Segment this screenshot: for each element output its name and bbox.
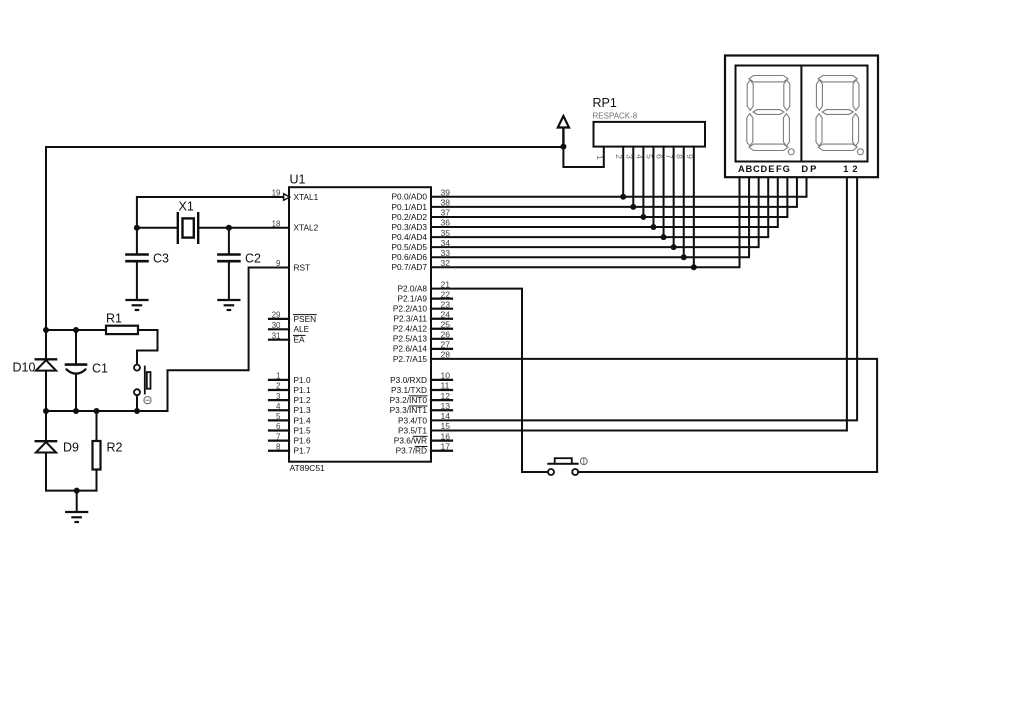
svg-text:RP1: RP1 [593,96,617,110]
svg-text:F: F [776,164,782,174]
svg-text:3: 3 [624,154,634,159]
ground bottom-left [66,511,87,513]
svg-text:P2.6/A14: P2.6/A14 [393,344,428,354]
wire RP1 pin 8 to P0.6 bus [683,147,685,258]
svg-text:2: 2 [852,164,857,174]
wire C2 to ground [228,262,230,299]
svg-text:33: 33 [441,248,451,258]
display digit 1 seven-segment outline [749,76,788,82]
push button actuator mark [580,458,587,465]
svg-text:6: 6 [276,422,281,431]
capacitor C3 [127,253,148,256]
svg-text:P1.2: P1.2 [294,395,311,405]
wire P3.5/T1 from U1 pin 15 to display digit-1 pin [431,177,847,430]
svg-text:P3.3/INT1: P3.3/INT1 [390,405,428,415]
svg-text:6: 6 [655,154,665,159]
wire X1 right node down to C2 [228,228,230,254]
U1 pin 27 P2.6/A14 stub [431,348,452,350]
svg-text:28: 28 [441,350,451,360]
svg-text:19: 19 [272,189,281,198]
svg-text:U1: U1 [290,173,306,187]
wire P0.0 bus from U1 pin 39 to display [431,177,807,197]
svg-text:1: 1 [276,372,281,381]
svg-text:P2.3/A11: P2.3/A11 [393,314,427,324]
U1 pin 30 ALE stub [269,328,289,330]
svg-text:P3.5/T1: P3.5/T1 [398,425,427,435]
svg-text:26: 26 [441,330,451,340]
svg-text:14: 14 [441,411,451,421]
display digit 1 decimal point [788,149,794,155]
wire P0.2 bus from U1 pin 37 to display [431,177,787,217]
capacitor C1 polarized [75,330,77,364]
svg-text:D9: D9 [63,441,79,455]
wire to ground symbol [76,491,78,511]
svg-text:XTAL2: XTAL2 [294,223,319,233]
svg-text:31: 31 [272,331,281,340]
svg-text:23: 23 [441,299,451,309]
svg-text:RST: RST [294,262,311,272]
ground below C3 [127,299,148,301]
resistor pack RP1 body [594,122,706,147]
junction bottom ground node [74,488,80,494]
svg-text:8: 8 [276,442,281,451]
svg-text:ALE: ALE [294,324,310,334]
display digit 2 seven-segment outline [818,76,857,82]
push button lower terminals [548,469,554,475]
svg-text:34: 34 [441,238,451,248]
U1 pin 13 P3.3/INT1 stub [431,409,452,411]
junction RP1 pin 6 on P0.4 bus [661,234,667,240]
wire reset row [46,410,168,412]
svg-text:P1.6: P1.6 [294,436,311,446]
junction RP1 pin 5 on P0.3 bus [650,224,656,230]
junction left rail at reset row [43,408,49,414]
svg-text:21: 21 [441,279,451,289]
junction RP1 pin 9 on P0.7 bus [691,264,697,270]
svg-text:P1.5: P1.5 [294,425,311,435]
svg-text:R2: R2 [107,441,123,455]
svg-text:30: 30 [272,321,281,330]
svg-text:9: 9 [685,154,695,159]
U1 pin 25 P2.4/A12 stub [431,328,452,330]
junction X1 right node [226,225,232,231]
svg-text:5: 5 [644,154,654,159]
op-amp U1 AT89C51 microcontroller body [289,187,431,462]
resistor R2 [96,411,98,441]
svg-text:38: 38 [441,198,451,208]
junction RP1 pin 3 on P0.1 bus [630,204,636,210]
svg-text:AT89C51: AT89C51 [290,463,326,473]
svg-text:7: 7 [665,154,675,159]
capacitor C2 [218,253,239,256]
U1 pin 24 P2.3/A11 stub [431,318,452,320]
svg-text:P2.1/A9: P2.1/A9 [397,294,427,304]
svg-text:P2.2/A10: P2.2/A10 [393,304,428,314]
svg-text:A: A [738,164,745,174]
diode D10 [36,358,56,360]
svg-text:36: 36 [441,218,451,228]
U1 pin 2 P1.1 stub [269,389,289,391]
svg-text:17: 17 [441,441,451,451]
U1 pin 31 EA stub [269,339,289,341]
svg-text:P0.2/AD2: P0.2/AD2 [391,212,427,222]
wire P3.4/T0 from U1 pin 14 to display digit-2 pin [431,177,857,420]
wire RP1 pin 9 to P0.7 bus [693,147,695,268]
svg-text:P3.7/RD: P3.7/RD [396,446,427,456]
wire RP1 pin 2 to P0.0 bus [622,147,624,197]
svg-text:P3.1/TXD: P3.1/TXD [391,385,427,395]
svg-text:R1: R1 [106,311,122,325]
wire RP1 pin 1 to power node [563,147,603,167]
svg-text:25: 25 [441,319,451,329]
svg-text:C: C [753,164,760,174]
U1 pin 23 P2.2/A10 stub [431,308,452,310]
svg-text:EA: EA [294,335,306,345]
svg-text:C3: C3 [153,252,169,266]
svg-text:P0.3/AD3: P0.3/AD3 [391,222,427,232]
ground below C2 [218,299,239,301]
svg-text:37: 37 [441,208,451,218]
wire reset row to RST pin of U1 [168,268,290,412]
svg-text:P2.5/A13: P2.5/A13 [393,334,428,344]
svg-text:P0.1/AD1: P0.1/AD1 [391,202,427,212]
U1 pin 29 PSEN stub [269,318,289,320]
wire P2.0/A8 from U1 pin 21 to push button left [431,289,522,472]
U1 pin 3 P1.2 stub [269,399,289,401]
wire bottom node to R2 [46,490,97,492]
U1 pin 22 P2.1/A9 stub [431,298,452,300]
wire D10 to lower rail [45,371,47,441]
svg-text:4: 4 [634,154,644,159]
U1 pin 10 P3.0/RXD stub [431,379,452,381]
svg-text:13: 13 [441,401,451,411]
U1 pin 6 P1.5 stub [269,429,289,431]
svg-text:P: P [810,164,816,174]
wire button right terminal to P2.7 leg [578,471,877,473]
svg-text:8: 8 [675,154,685,159]
svg-text:P1.0: P1.0 [294,375,311,385]
svg-text:B: B [745,164,752,174]
wire R1 row from left rail to R1 [46,329,106,331]
wire left rail vertical [45,147,47,359]
7-segment display body outer box [725,56,878,178]
U1 pin 19 XTAL1 arrow [284,194,290,200]
wire reset button to reset row [136,395,138,411]
reset button actuator mark [144,397,151,404]
svg-text:5: 5 [276,412,281,421]
svg-text:P2.4/A12: P2.4/A12 [393,324,428,334]
svg-text:P0.0/AD0: P0.0/AD0 [391,192,427,202]
svg-text:2: 2 [276,382,281,391]
push button contact bar [548,463,577,465]
U1 pin 4 P1.3 stub [269,409,289,411]
junction X1 left node [134,225,140,231]
wire RP1 pin 5 to P0.3 bus [652,147,654,227]
push button cap [555,458,572,464]
svg-text:P1.4: P1.4 [294,415,311,425]
wire RP1 pin 4 to P0.2 bus [642,147,644,217]
svg-text:E: E [768,164,774,174]
display inner window [736,66,868,162]
U1 pin 17 P3.7/RD stub [431,450,452,452]
U1 pin 26 P2.5/A13 stub [431,338,452,340]
svg-text:1: 1 [595,155,605,160]
junction RP1 pin 4 on P0.2 bus [640,214,646,220]
resistor R1 [106,326,138,334]
svg-text:15: 15 [441,421,451,431]
U1 pin 5 P1.4 stub [269,419,289,421]
wire P0.6 bus from U1 pin 33 to display [431,177,749,257]
svg-text:P2.7/A15: P2.7/A15 [393,354,428,364]
wire P0.7 bus from U1 pin 32 to display [431,177,740,267]
wire P0.3 bus from U1 pin 36 to display [431,177,778,227]
wire RP1 pin 6 to P0.4 bus [663,147,665,237]
wire P0.5 bus from U1 pin 34 to display [431,177,759,247]
svg-text:16: 16 [441,431,451,441]
U1 pin 11 P3.1/TXD stub [431,389,452,391]
svg-text:3: 3 [276,392,281,401]
svg-text:P3.0/RXD: P3.0/RXD [390,375,427,385]
junction RP1 pin 8 on P0.6 bus [681,254,687,260]
wire X1 left node to crystal [137,227,178,229]
junction left rail at R1 row [43,327,49,333]
svg-text:G: G [783,164,790,174]
wire D9 to bottom node [45,453,47,491]
display digit divider [800,66,802,162]
svg-text:XTAL1: XTAL1 [294,192,319,202]
svg-text:C2: C2 [245,252,261,266]
junction reset row below button [134,408,140,414]
wire X1 left node down to C3 [136,228,138,254]
svg-text:7: 7 [276,432,281,441]
junction reset row at C1 [73,408,79,414]
svg-text:11: 11 [441,381,450,391]
svg-text:P0.4/AD4: P0.4/AD4 [391,232,427,242]
svg-text:2: 2 [614,154,624,159]
svg-text:35: 35 [441,228,451,238]
wire C3 to ground [136,262,138,299]
svg-text:4: 4 [276,402,281,411]
display digit 2 decimal point [857,149,863,155]
svg-text:39: 39 [441,188,451,198]
svg-text:RESPACK-8: RESPACK-8 [593,112,638,121]
svg-text:D: D [760,164,767,174]
svg-text:P3.4/T0: P3.4/T0 [398,415,427,425]
svg-text:32: 32 [441,258,451,268]
svg-text:29: 29 [272,311,281,320]
junction reset row at R2 [94,408,100,414]
junction RP1 pin 7 on P0.5 bus [671,244,677,250]
svg-text:12: 12 [441,391,451,401]
U1 pin 16 P3.6/WR stub [431,440,452,442]
svg-text:22: 22 [441,289,451,299]
svg-text:1: 1 [843,164,848,174]
junction RP1 pin 2 on P0.0 bus [620,194,626,200]
wire P0.4 bus from U1 pin 35 to display [431,177,768,237]
wire RP1 pin 7 to P0.5 bus [673,147,675,248]
svg-text:PSEN: PSEN [294,314,317,324]
wire P2.7/A15 from U1 pin 28 to push button right [431,359,877,472]
svg-text:X1: X1 [179,200,194,214]
power terminal arrow [562,128,564,147]
wire P0.1 bus from U1 pin 38 to display [431,177,797,207]
svg-text:10: 10 [441,371,451,381]
crystal X1 [177,213,179,243]
svg-text:D10: D10 [13,360,36,374]
U1 pin 1 P1.0 stub [269,379,289,381]
wire RP1 pin 3 to P0.1 bus [632,147,634,207]
wire R1 to reset button with jog [137,330,158,364]
wire XTAL1 from X1 node to U1 pin 19 [137,197,289,228]
svg-text:C1: C1 [92,362,108,376]
svg-text:P2.0/A8: P2.0/A8 [397,284,427,294]
svg-text:P3.6/WR: P3.6/WR [394,436,427,446]
svg-text:P1.3: P1.3 [294,405,311,415]
svg-text:D: D [801,164,808,174]
diode D9 [36,440,56,442]
wire crystal to X1 right node and U1 XTAL2 [198,227,289,229]
svg-text:P0.6/AD6: P0.6/AD6 [391,252,427,262]
svg-text:27: 27 [441,340,451,350]
wire P2.0 leg to button left terminal [522,471,548,473]
junction C1 top [73,327,79,333]
junction power node [560,144,566,150]
svg-text:P3.2/INT0: P3.2/INT0 [390,395,428,405]
svg-text:P0.7/AD7: P0.7/AD7 [391,262,427,272]
svg-text:24: 24 [441,309,451,319]
U1 pin 12 P3.2/INT0 stub [431,399,452,401]
svg-text:P0.5/AD5: P0.5/AD5 [391,242,427,252]
U1 pin 7 P1.6 stub [269,440,289,442]
svg-text:P1.1: P1.1 [294,385,311,395]
svg-text:P1.7: P1.7 [294,446,311,456]
reset push button [134,365,140,371]
wire top rail from left rail to power node [46,146,563,148]
U1 pin 8 P1.7 stub [269,450,289,452]
